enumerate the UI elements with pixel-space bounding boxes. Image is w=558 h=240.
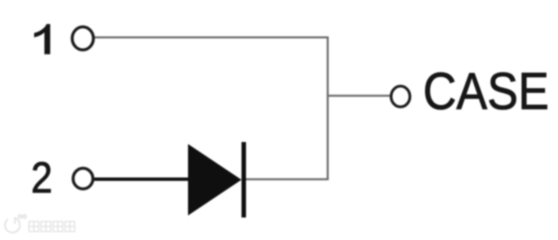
svg-text:2: 2 (31, 154, 53, 203)
svg-text:CASE: CASE (423, 63, 549, 121)
